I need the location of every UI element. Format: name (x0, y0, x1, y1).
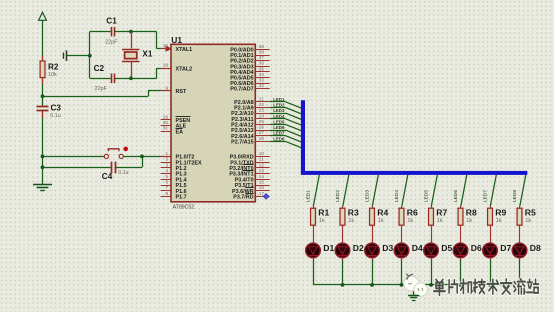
svg-text:8: 8 (165, 191, 168, 196)
svg-text:C4: C4 (102, 172, 113, 181)
svg-text:7: 7 (165, 185, 168, 190)
svg-text:LED2: LED2 (335, 190, 341, 202)
svg-text:D7: D7 (500, 243, 511, 253)
svg-text:LED1: LED1 (273, 97, 285, 102)
svg-text:34: 34 (259, 72, 265, 77)
svg-text:XTAL1: XTAL1 (176, 47, 193, 53)
svg-text:C1: C1 (106, 17, 117, 26)
svg-text:1k: 1k (496, 218, 502, 224)
svg-text:R8: R8 (466, 208, 477, 218)
svg-text:0.1u: 0.1u (50, 113, 61, 119)
svg-text:LED8: LED8 (273, 136, 285, 141)
svg-text:D8: D8 (530, 243, 541, 253)
svg-text:LED4: LED4 (273, 114, 285, 119)
svg-text:17: 17 (259, 191, 265, 196)
svg-text:28: 28 (259, 136, 265, 141)
svg-text:36: 36 (259, 61, 265, 66)
svg-text:D1: D1 (323, 243, 334, 253)
svg-text:15: 15 (259, 180, 265, 185)
svg-text:1k: 1k (437, 218, 443, 224)
svg-text:1k: 1k (525, 218, 531, 224)
svg-text:27: 27 (259, 130, 265, 135)
svg-text:U1: U1 (171, 35, 182, 45)
svg-text:C2: C2 (94, 64, 105, 73)
svg-text:D2: D2 (353, 243, 364, 253)
svg-text:X1: X1 (142, 50, 152, 59)
svg-text:39: 39 (259, 44, 265, 49)
svg-text:1: 1 (165, 151, 168, 156)
svg-text:AT89C52: AT89C52 (173, 204, 195, 210)
svg-text:1k: 1k (407, 218, 413, 224)
svg-text:1k: 1k (378, 218, 384, 224)
svg-text:16: 16 (259, 185, 265, 190)
svg-text:RST: RST (176, 89, 187, 95)
svg-text:C3: C3 (51, 103, 62, 112)
svg-text:18: 18 (163, 63, 169, 68)
svg-text:R1: R1 (318, 208, 329, 218)
svg-text:LED3: LED3 (273, 108, 285, 113)
svg-text:LED6: LED6 (453, 190, 459, 202)
svg-text:D6: D6 (471, 243, 482, 253)
svg-text:LED2: LED2 (273, 103, 285, 108)
svg-text:R3: R3 (348, 208, 359, 218)
svg-text:10k: 10k (48, 72, 57, 78)
svg-text:2: 2 (165, 157, 168, 162)
svg-text:R2: R2 (48, 62, 59, 71)
svg-text:R9: R9 (495, 208, 506, 218)
svg-text:D4: D4 (412, 243, 423, 253)
svg-text:33: 33 (259, 78, 265, 83)
svg-text:13: 13 (259, 168, 265, 173)
svg-text:23: 23 (259, 108, 265, 113)
svg-text:22pF: 22pF (105, 39, 118, 45)
svg-text:XTAL2: XTAL2 (176, 66, 193, 72)
svg-text:4: 4 (165, 168, 168, 173)
svg-text:31: 31 (163, 126, 169, 131)
svg-text:22pF: 22pF (95, 86, 108, 92)
svg-text:32: 32 (259, 83, 265, 88)
svg-text:11: 11 (259, 157, 264, 162)
svg-text:22: 22 (259, 102, 265, 107)
svg-text:30: 30 (163, 120, 169, 125)
svg-text:14: 14 (259, 174, 265, 179)
svg-text:LED7: LED7 (273, 131, 285, 136)
svg-text:R5: R5 (525, 208, 536, 218)
svg-text:P1.7: P1.7 (176, 195, 187, 201)
svg-text:R6: R6 (407, 208, 418, 218)
svg-text:LED7: LED7 (483, 190, 489, 202)
svg-text:25: 25 (259, 119, 265, 124)
svg-text:1k: 1k (466, 218, 472, 224)
svg-text:1k: 1k (348, 218, 354, 224)
svg-text:10: 10 (259, 151, 265, 156)
svg-text:LED8: LED8 (512, 190, 518, 202)
svg-text:LED4: LED4 (394, 190, 400, 202)
svg-text:0.1u: 0.1u (118, 170, 128, 176)
svg-text:P0.7/AD7: P0.7/AD7 (230, 87, 253, 93)
svg-text:LED3: LED3 (365, 190, 371, 202)
svg-text:38: 38 (259, 50, 265, 55)
svg-text:6: 6 (165, 180, 168, 185)
svg-text:26: 26 (259, 125, 265, 130)
svg-text:24: 24 (259, 113, 265, 118)
svg-text:LED1: LED1 (306, 190, 312, 202)
svg-text:3: 3 (165, 162, 168, 167)
svg-text:35: 35 (259, 66, 265, 71)
svg-text:LED5: LED5 (424, 190, 430, 202)
svg-text:9: 9 (165, 85, 168, 90)
svg-text:D5: D5 (441, 243, 452, 253)
svg-text:EA: EA (176, 129, 184, 135)
svg-text:R4: R4 (377, 208, 388, 218)
svg-text:LED5: LED5 (273, 119, 285, 124)
svg-text:29: 29 (163, 114, 169, 119)
svg-text:21: 21 (259, 96, 265, 101)
svg-text:R7: R7 (436, 208, 447, 218)
svg-text:19: 19 (163, 43, 169, 48)
svg-text:12: 12 (259, 162, 265, 167)
svg-text:P2.7/A15: P2.7/A15 (231, 140, 253, 146)
svg-text:D3: D3 (382, 243, 393, 253)
svg-text:5: 5 (165, 174, 168, 179)
svg-text:37: 37 (259, 55, 265, 60)
svg-text:1k: 1k (319, 218, 325, 224)
svg-text:P3.7/RD: P3.7/RD (233, 195, 253, 201)
svg-text:LED6: LED6 (273, 125, 285, 130)
